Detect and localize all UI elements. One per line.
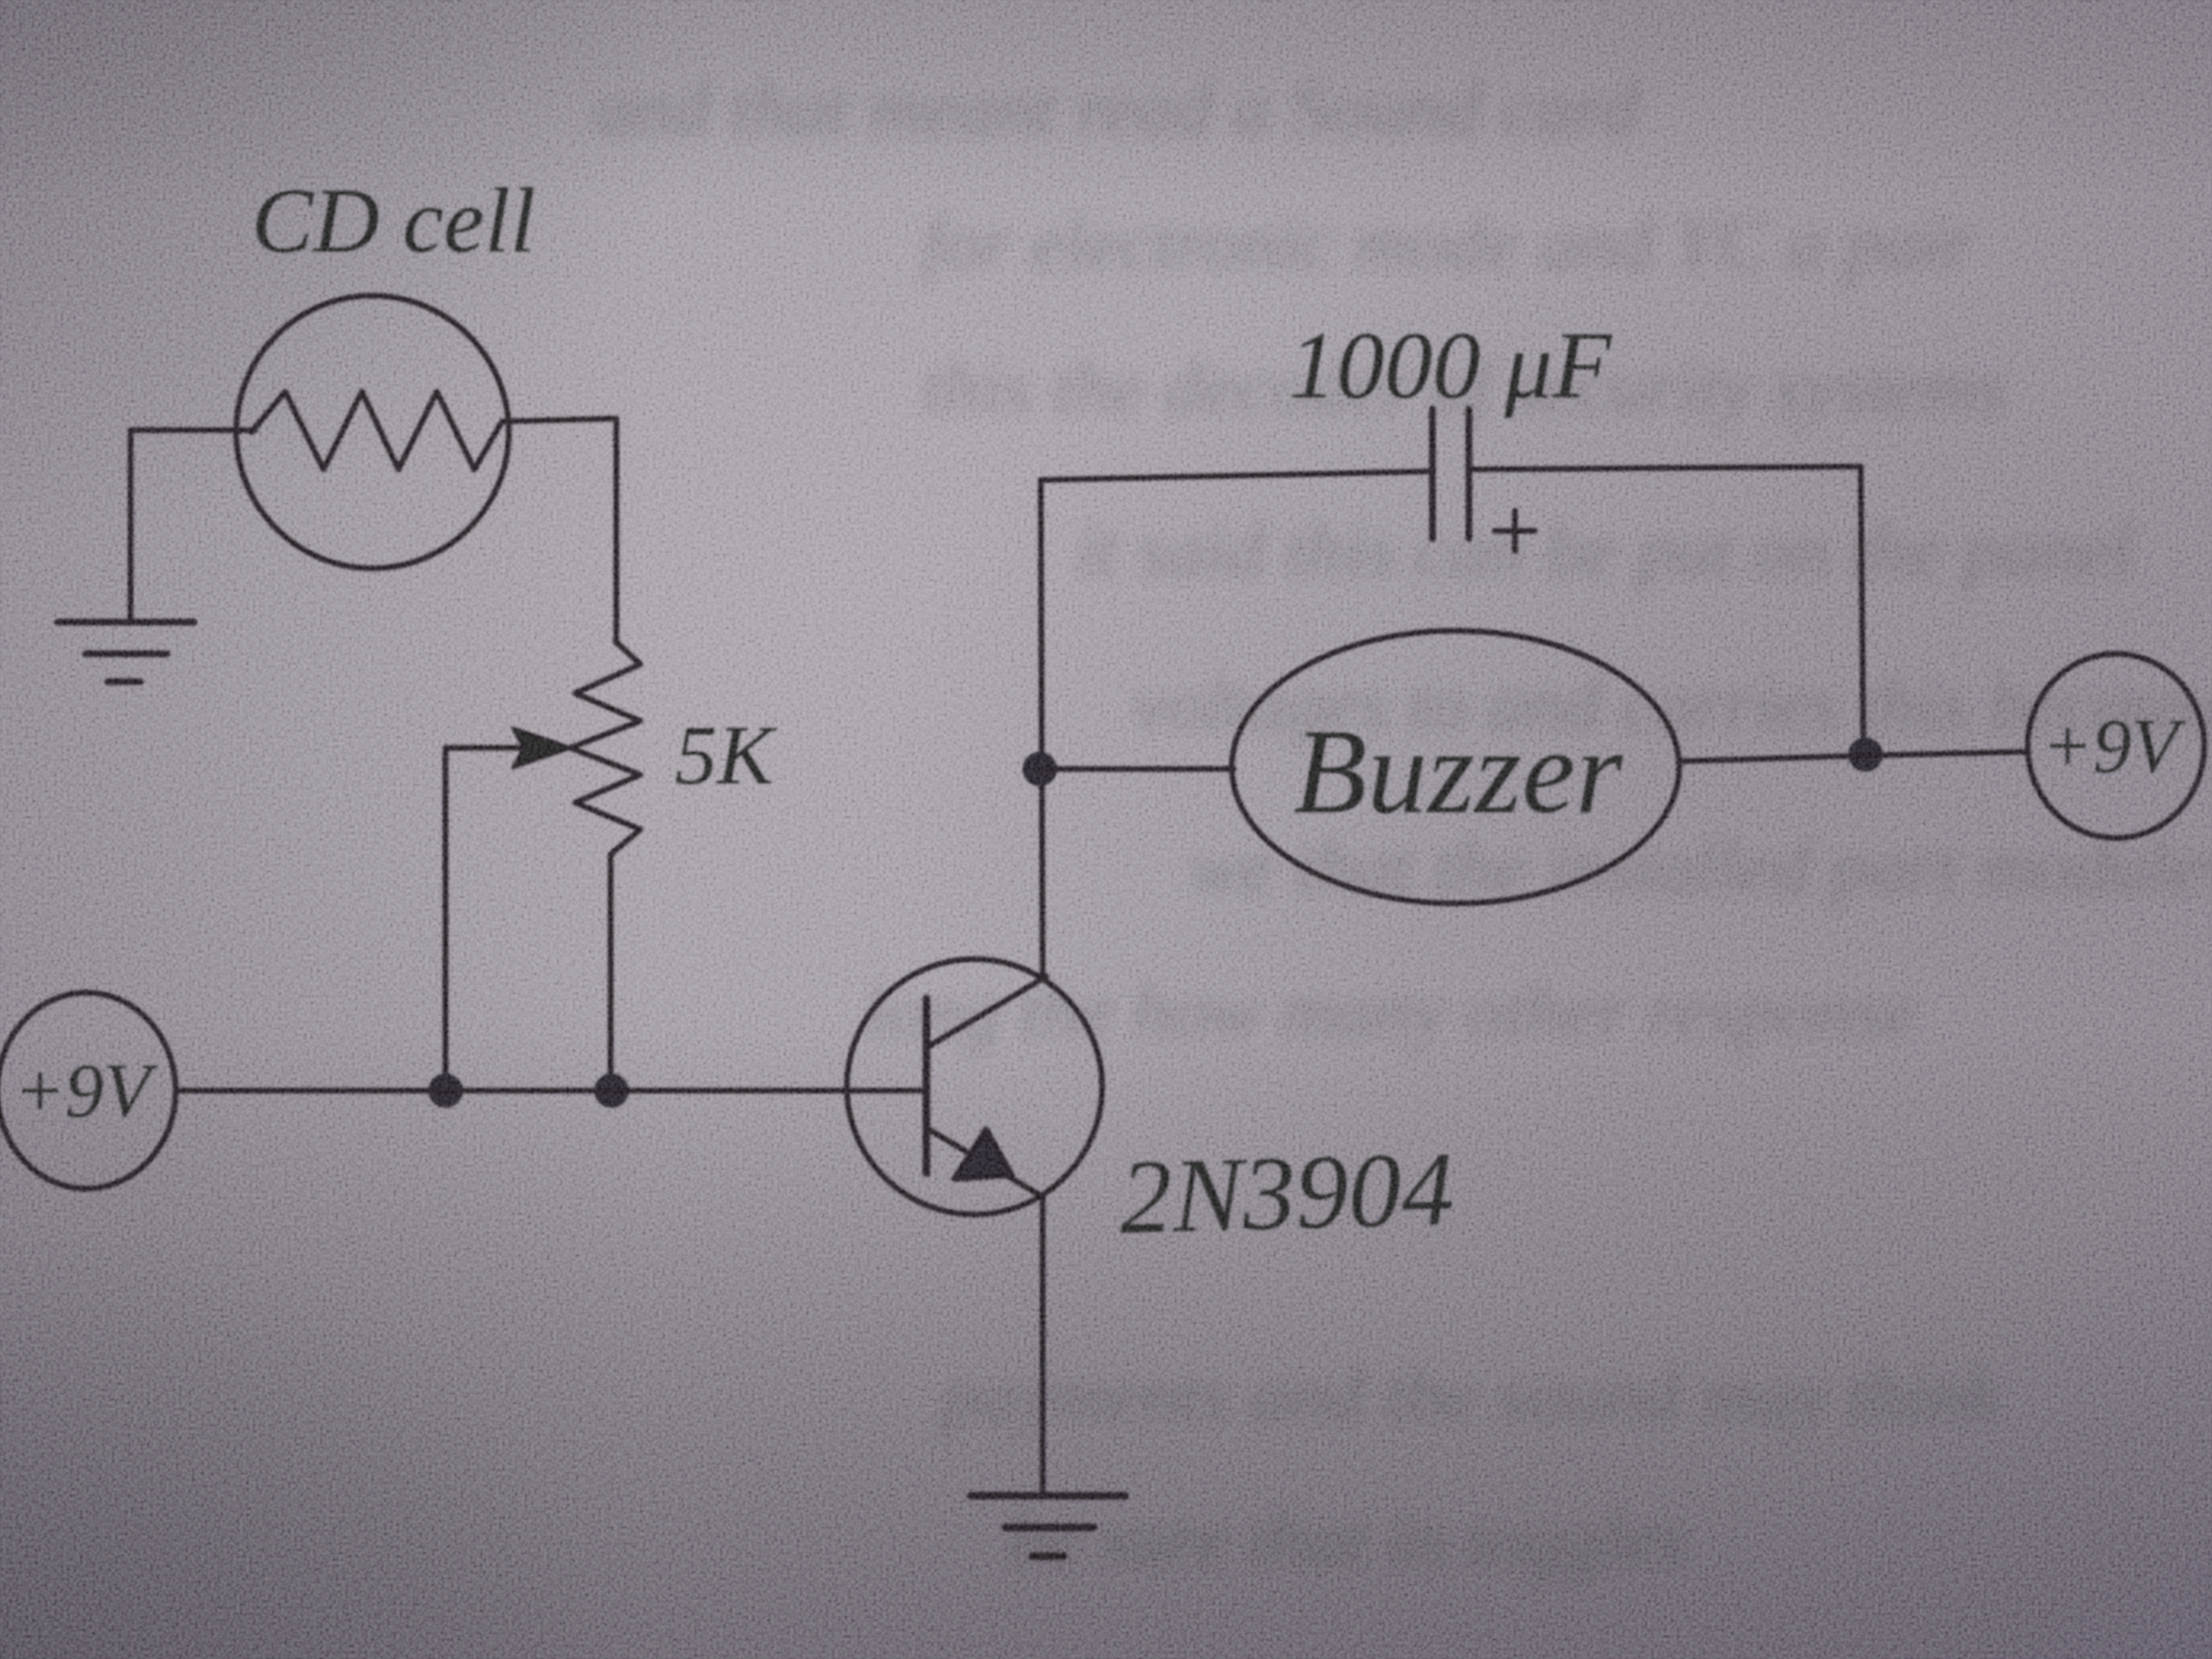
ghost bleed-through text	[595, 67, 2212, 1582]
wire: down to potentiometer	[613, 419, 619, 641]
wire: CdS left lead	[131, 427, 255, 433]
wire: node to buzzer left	[1040, 766, 1234, 772]
node: junction dot collector	[1022, 752, 1057, 786]
emitter arrowhead	[954, 1129, 1012, 1179]
wire: emitter down to ground	[1040, 1196, 1046, 1494]
capacitor plus sign	[1495, 511, 1535, 551]
ground (top-left)	[58, 622, 194, 682]
transistor collector diagonal	[928, 976, 1046, 1046]
wire: cap left horizontal	[1041, 471, 1431, 480]
wire: cap right horizontal	[1470, 467, 1861, 469]
wire: CdS left corner down to ground	[128, 430, 133, 620]
buzzer BZ1 ellipse	[1232, 631, 1679, 903]
potentiometer wiper wire	[445, 745, 530, 751]
wire: right corner down	[1861, 467, 1863, 755]
photoresistor R1 zigzag	[252, 392, 502, 469]
wire: wiper down to rail	[443, 748, 448, 1090]
transistor emitter diagonal	[928, 1129, 1042, 1196]
wiper arrowhead	[513, 728, 572, 768]
wire: CdS right lead	[502, 419, 616, 421]
node: junction dot wiper/rail	[428, 1073, 463, 1108]
transistor Q1 circle	[847, 959, 1102, 1214]
node: junction dot right	[1848, 737, 1883, 772]
transistor base bar	[923, 998, 930, 1173]
+9V supply (right) circle	[2028, 654, 2204, 838]
ground (bottom)	[971, 1496, 1125, 1556]
potentiometer R2 5K zigzag	[570, 641, 640, 1090]
+9V supply (left) circle	[0, 993, 176, 1189]
capacitor C1 right plate	[1466, 409, 1473, 539]
node: junction dot pot/rail	[594, 1073, 629, 1108]
wire: bottom rail +9V to base	[177, 1088, 924, 1094]
photoresistor R1 "CD cell" circle	[236, 296, 509, 568]
wire: collector up to node	[1041, 480, 1043, 976]
capacitor C1 left plate	[1430, 409, 1436, 539]
wire: buzzer right to +9V	[1679, 752, 2029, 761]
